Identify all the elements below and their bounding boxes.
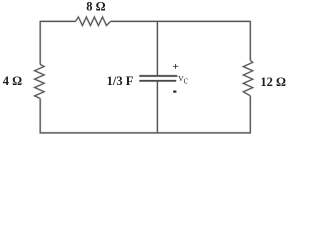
wire middle vertical upper (capacitor top lead) — [156, 21, 158, 76]
resistor R1 8ohm — [75, 17, 110, 26]
svg-text:1/3 F: 1/3 F — [107, 74, 134, 88]
wire top right segment — [111, 20, 251, 22]
wire right vertical upper — [249, 21, 251, 60]
wire bottom — [40, 132, 251, 134]
svg-text:12 Ω: 12 Ω — [260, 75, 286, 89]
wire left vertical lower — [39, 99, 41, 134]
resistor R2 4ohm — [35, 64, 45, 98]
capacitor C1 top plate — [139, 75, 177, 77]
wire left vertical upper — [39, 21, 41, 65]
node voltage label vc — [178, 72, 188, 86]
svg-text:c: c — [184, 75, 189, 86]
polarity minus sign — [173, 91, 176, 93]
svg-text:8 Ω: 8 Ω — [86, 0, 105, 14]
svg-text:4 Ω: 4 Ω — [3, 74, 22, 88]
wire top left segment — [40, 20, 75, 22]
capacitor C1 bottom plate — [139, 80, 176, 82]
wire middle vertical lower (capacitor bottom lead) — [156, 81, 158, 134]
wire right vertical lower — [249, 96, 251, 134]
resistor R3 12ohm — [243, 60, 252, 96]
